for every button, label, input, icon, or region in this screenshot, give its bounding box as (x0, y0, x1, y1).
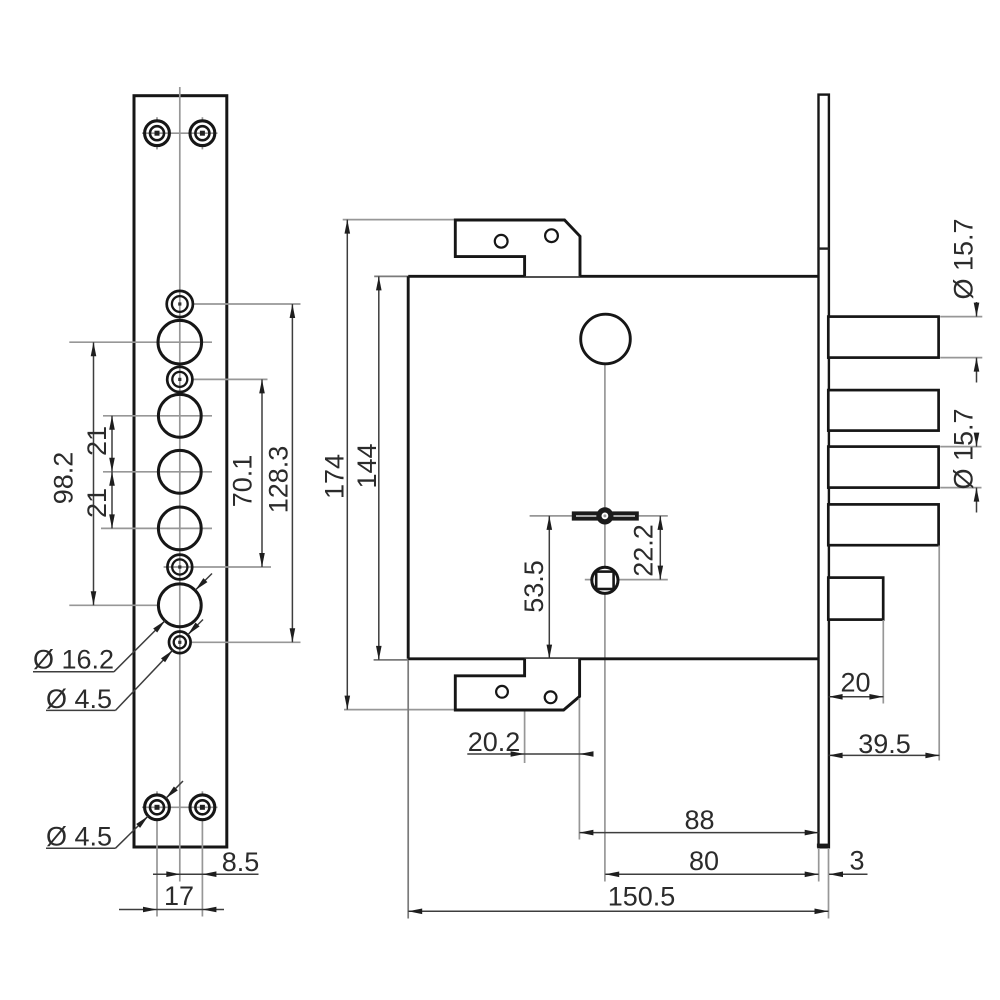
screw hole top-left (145, 121, 170, 146)
cylinder hole circle (581, 314, 631, 364)
left view: faceplate plate outline (134, 96, 227, 847)
faceplate joint tick (817, 247, 829, 249)
faceplate side view (819, 95, 829, 848)
extension line below bracket right edge (88 datum) (578, 698, 580, 840)
bolt 3 (828, 447, 938, 488)
dimension Ø 15.7 upper line (976, 302, 978, 317)
dimension Ø 15.7 lower line (976, 433, 978, 447)
bolt 4 (828, 504, 938, 545)
dimension 20 line (829, 696, 884, 698)
top mounting bracket outline (455, 220, 580, 276)
label Ø 4.5 bottom leader lower segment (116, 816, 149, 848)
bolt 1 (828, 317, 938, 358)
big hole B1 (158, 320, 202, 364)
extension line below latch right edge (882, 620, 884, 704)
svg-text:144: 144 (352, 443, 382, 488)
tick above bottom-right screw (201, 791, 203, 795)
svg-text:21: 21 (82, 488, 112, 518)
screw hole bottom-right (190, 795, 215, 820)
spindle square hole (596, 572, 613, 589)
big hole B4 (158, 507, 201, 550)
faceplate bottom cap (817, 844, 829, 848)
svg-text:98.2: 98.2 (49, 452, 79, 505)
svg-text:Ø 15.7: Ø 15.7 (949, 408, 979, 489)
screw hole bottom-left (145, 795, 170, 820)
dimension 70.1 line (261, 379, 263, 567)
extension line through top screws (142, 132, 218, 134)
svg-text:Ø 15.7: Ø 15.7 (949, 218, 979, 299)
extension line bolt3 bottom (940, 487, 981, 489)
small hole S3 (167, 555, 192, 580)
bolt 2 (828, 390, 938, 431)
svg-text:Ø 16.2: Ø 16.2 (33, 645, 114, 675)
dimension 53.5 line (548, 516, 550, 659)
extension line from small hole S1 (128.3 datum top) (194, 303, 301, 305)
svg-text:174: 174 (320, 454, 350, 499)
dimension 128.3 line (291, 304, 293, 642)
dimension 150.5 line (408, 910, 828, 912)
cam bar (572, 511, 639, 520)
dimension 80 line (605, 873, 819, 875)
extension line at bottom bracket bottom (174 datum) (344, 709, 455, 711)
extension line through big hole B4 (21 datum) (101, 527, 212, 529)
cam boss circle (596, 507, 613, 524)
extension line right of cam (22.2 datum) (638, 515, 667, 517)
extension line bolt3 top (940, 446, 981, 448)
top bracket hole right (545, 229, 558, 242)
dimension 39.5 line (829, 754, 940, 756)
extension line bolt1 bottom (940, 357, 982, 359)
svg-text:8.5: 8.5 (222, 847, 260, 877)
small hole S4 (169, 632, 191, 654)
spindle hole circle (592, 567, 618, 593)
big hole B5 (158, 584, 201, 627)
dimension 17 line (119, 909, 224, 911)
extension line through big hole B3 (21 datum) (103, 471, 212, 473)
label Ø 4.5 middle leader lower segment (116, 650, 173, 710)
tick above top-left screw (156, 117, 158, 121)
small hole S1 (167, 291, 193, 317)
right view: vertical centerline through lock (604, 364, 606, 882)
extension line to big hole B5 (98.2 datum bottom) (69, 604, 157, 606)
extension line faceplate right edge below (150.5/3 datum) (828, 848, 830, 919)
label Ø 16.2 leader upper segment (196, 574, 213, 591)
extension line body left edge below (150.5 datum) (407, 660, 409, 919)
extension line left of spindle square (22.2 datum) (585, 579, 597, 581)
extension line at body top (144 datum) (374, 275, 408, 277)
extension line below bolts right edge (938, 546, 940, 761)
tick above bottom-left screw (156, 791, 158, 795)
svg-text:80: 80 (689, 846, 719, 876)
screw hole top-right (190, 121, 215, 146)
extension line faceplate left edge below (80/88 datum) (818, 848, 820, 882)
dimension 22.2 line (659, 516, 661, 580)
svg-text:17: 17 (164, 881, 194, 911)
svg-text:70.1: 70.1 (228, 455, 258, 508)
svg-text:53.5: 53.5 (519, 560, 549, 613)
extension line below bracket step (20.2 datum) (524, 712, 526, 764)
svg-text:22.2: 22.2 (628, 524, 658, 577)
extension line from small hole S2 (70.1 datum top) (194, 378, 268, 380)
svg-text:Ø 4.5: Ø 4.5 (46, 684, 112, 714)
tick below top-left screw (156, 145, 158, 149)
dimension 21 lower line (111, 472, 113, 529)
latch bolt (828, 578, 883, 620)
big hole B2 (158, 394, 201, 437)
top bracket hole left (495, 235, 508, 248)
extension line through big hole B1 (98.2 datum top) (69, 341, 212, 343)
extension line from small hole S4 (128.3 datum bottom) (192, 641, 301, 643)
label Ø 4.5 bottom leader upper segment (166, 781, 183, 798)
extension line through big hole B2 (21 datum) (103, 415, 212, 417)
svg-text:39.5: 39.5 (858, 729, 911, 759)
dimension 20.2 line (467, 753, 593, 755)
label Ø 4.5 middle leader upper segment (188, 620, 203, 635)
label Ø 16.2 leader lower segment (114, 621, 165, 672)
extension line through bottom screws (142, 806, 218, 808)
bottom mounting bracket outline (455, 659, 579, 710)
extension line below bottom-left screw (156, 821, 158, 917)
svg-text:20: 20 (840, 668, 870, 698)
svg-text:128.3: 128.3 (264, 446, 294, 514)
tick below top-right screw (201, 145, 203, 149)
bottom bracket hole left (496, 686, 508, 698)
small hole S2 (167, 367, 192, 392)
label Ø 4.5 middle leader landing (46, 709, 116, 711)
svg-text:20.2: 20.2 (468, 727, 521, 757)
extension line left of cam (53.5 datum) (530, 515, 573, 517)
left view: faceplate centerline (179, 87, 181, 882)
lock body outline (408, 276, 820, 659)
dimension 98.2 line (93, 342, 95, 605)
label Ø 4.5 bottom leader landing (46, 847, 116, 849)
svg-text:150.5: 150.5 (608, 882, 676, 912)
extension line at body bottom (144 datum) (374, 659, 409, 661)
extension line right of spindle square (613, 579, 668, 581)
extension line at top bracket top (174 datum) (343, 219, 456, 221)
dimension 144 line (378, 276, 380, 660)
extension line below bottom-right screw (201, 821, 203, 917)
dimension 174 line (346, 220, 348, 710)
bottom bracket hole right (545, 691, 557, 703)
big hole B3 (158, 450, 201, 493)
svg-text:21: 21 (82, 426, 112, 456)
dimension 8.5 line (153, 873, 259, 875)
extension line through small hole S3 (70.1 datum bottom) (164, 566, 271, 568)
dimension 88 line (579, 832, 818, 834)
dimension 21 upper line (111, 416, 113, 472)
svg-text:3: 3 (849, 846, 864, 876)
dimension 3 line (829, 873, 868, 875)
label Ø 16.2 leader landing (33, 671, 114, 673)
tick above top-right screw (201, 117, 203, 121)
svg-text:Ø 4.5: Ø 4.5 (46, 821, 112, 851)
svg-text:88: 88 (684, 805, 714, 835)
extension line bolt1 top (940, 316, 982, 318)
